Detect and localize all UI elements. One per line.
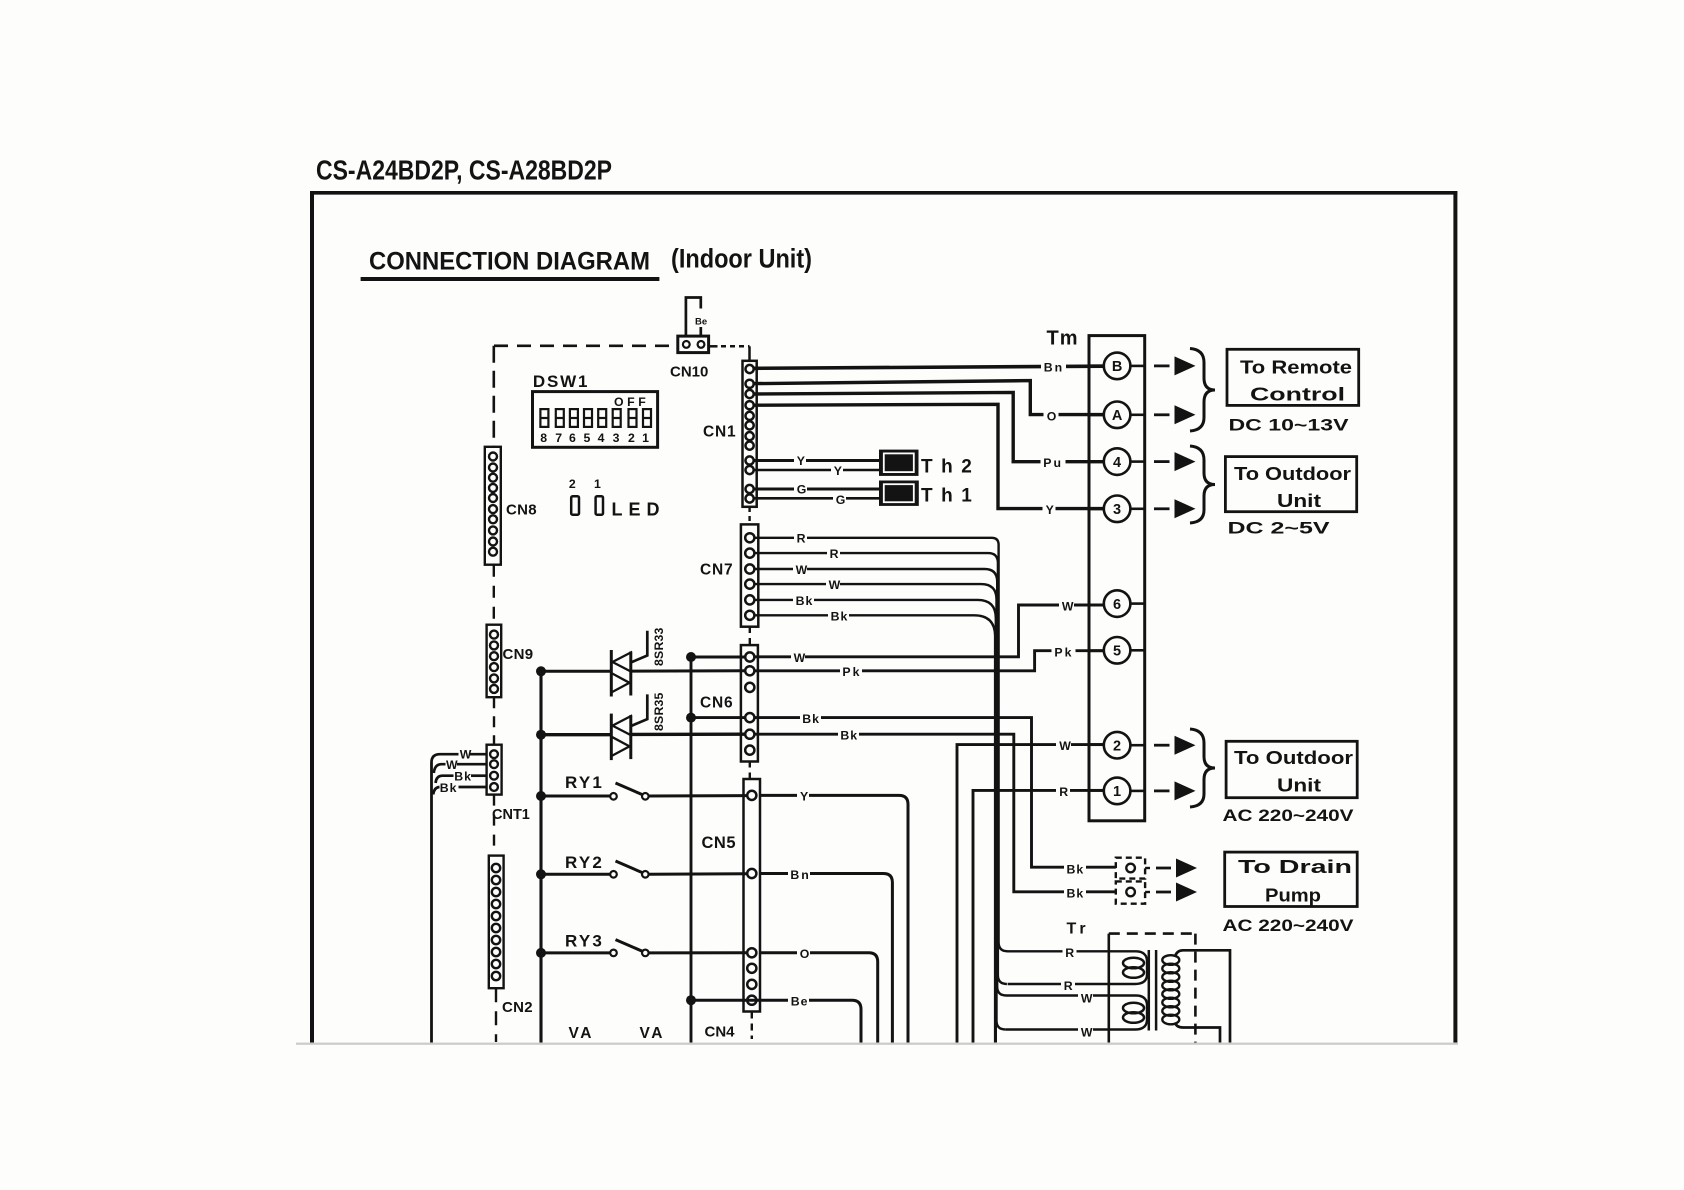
svg-text:Bk: Bk: [1067, 863, 1085, 877]
wire CN6 pin4 Bk to drain pump connector: [754, 718, 1116, 868]
wire label R: [794, 531, 807, 546]
svg-text:W: W: [1081, 1025, 1093, 1039]
thermistor Th2 body: [879, 450, 919, 476]
wire CN1 pin1 to terminal B: [754, 366, 1104, 368]
terminal 4: [1104, 448, 1131, 475]
svg-text:To Outdoor: To Outdoor: [1234, 464, 1351, 484]
wire label Bk: [838, 728, 859, 743]
svg-text:Y: Y: [1046, 503, 1054, 517]
LED 1 body: [596, 496, 603, 515]
svg-text:Pk: Pk: [1054, 646, 1073, 660]
svg-text:Tr: Tr: [1067, 921, 1090, 938]
svg-text:Control: Control: [1250, 384, 1345, 404]
wire label Pk terminal 5: [1052, 645, 1076, 660]
svg-text:B: B: [1112, 359, 1122, 375]
right vertical bus W net: [690, 657, 693, 1043]
connector CN7: [741, 524, 758, 626]
wire W to terminal 2 from bottom: [957, 745, 1104, 1043]
drain pump connector pin 1: [1116, 858, 1145, 879]
svg-text:(Indoor Unit): (Indoor Unit): [671, 244, 812, 274]
svg-text:Bk: Bk: [840, 728, 858, 742]
wire CN1 pin12 G to thermistor Th1: [754, 497, 880, 500]
relay RY3: [541, 940, 747, 957]
svg-text:CN8: CN8: [506, 502, 537, 519]
svg-text:Th1: Th1: [921, 486, 980, 507]
wire bus to CN6 pin4 Bk: [691, 716, 745, 719]
dashed wire CN9 to CNT1: [493, 697, 495, 745]
terminal 6: [1104, 590, 1131, 617]
svg-text:O: O: [1047, 410, 1057, 424]
svg-text:CNT1: CNT1: [492, 807, 530, 823]
junction bus 691 and Be wire: [686, 995, 696, 1005]
wire CN7 pin2 R to transformer primary: [754, 553, 1007, 984]
wire transformer secondary bottom: [1175, 1023, 1220, 1043]
transformer core: [1149, 950, 1156, 1031]
dip switch DSW1 pin numbers 87654321: [540, 431, 649, 445]
wire label Bk: [793, 593, 814, 608]
wire CN1 pin3 to terminal 4: [754, 392, 1104, 461]
wire triac1 row right to CN6 pin2: [631, 669, 745, 672]
wire transformer secondary top: [1175, 950, 1230, 1042]
svg-text:A: A: [1112, 408, 1123, 424]
connector CN8: [485, 447, 501, 565]
wire CN7 pin6 Bk going down: [754, 615, 995, 1042]
wire label Y: [794, 453, 806, 468]
heading underline: [361, 277, 660, 281]
wire label Be: [788, 994, 809, 1009]
junction bus and RY1: [536, 791, 546, 801]
wire label W: [1056, 738, 1071, 753]
svg-text:DC 2~5V: DC 2~5V: [1228, 519, 1331, 538]
info box To Outdoor Unit DC: [1225, 457, 1356, 512]
wire CN7 pin1 R to transformer primary: [754, 538, 1147, 984]
dashed wire CNT1 to CN2: [493, 795, 495, 856]
terminal 5: [1104, 637, 1131, 664]
wire label W: [791, 650, 806, 665]
wire label O: [797, 946, 810, 961]
wire R to terminal 1 from bottom: [973, 790, 1104, 1042]
svg-text:G: G: [836, 493, 846, 507]
wire label Bk drain 1: [1064, 862, 1086, 877]
drain pump connector pin 2: [1116, 881, 1145, 903]
triac SSR33: [611, 631, 647, 697]
brace terminals 4-3: [1190, 446, 1215, 523]
connector CNT1: [487, 745, 502, 795]
info box To Remote Control: [1227, 349, 1359, 405]
wire CN5 pin1 Y going down: [760, 795, 908, 1042]
svg-text:6: 6: [1113, 597, 1121, 613]
wire label Bk: [828, 609, 849, 624]
wire label Pu terminal 4: [1041, 455, 1066, 470]
svg-text:CN7: CN7: [700, 561, 733, 578]
svg-text:CS-A24BD2P, CS-A28BD2P: CS-A24BD2P, CS-A28BD2P: [316, 155, 612, 186]
brace terminals B-A: [1190, 349, 1215, 432]
transformer enclosure top edge dashed: [1109, 932, 1196, 935]
wire CN6 pin2 Pk to terminal 5: [754, 651, 1104, 671]
svg-text:4: 4: [1113, 455, 1121, 471]
dashed wire below CN4: [751, 1012, 753, 1040]
svg-text:VA: VA: [569, 1025, 594, 1042]
wire label O terminal A: [1044, 409, 1059, 424]
wire stub terminal 4 left: [1089, 460, 1104, 463]
wire label G: [833, 492, 846, 507]
svg-text:Pump: Pump: [1265, 886, 1321, 906]
svg-text:R: R: [797, 532, 806, 546]
arrow terminal A: [1154, 405, 1196, 424]
left vertical bus from triac rows to bottom: [539, 671, 542, 1043]
svg-text:1: 1: [594, 477, 601, 491]
svg-text:RY3: RY3: [565, 931, 604, 950]
transformer primary winding B loops: [1123, 1003, 1144, 1023]
transformer enclosure left edge: [1108, 934, 1111, 1043]
wire CN5 pin3 O going down: [760, 953, 878, 1043]
wire label R: [1056, 784, 1070, 799]
wire CN7 pin4 W to transformer primary: [754, 584, 1006, 1029]
arrow terminal B: [1154, 356, 1196, 375]
svg-text:2: 2: [569, 477, 576, 491]
svg-text:Be: Be: [695, 316, 707, 327]
info box To Drain Pump: [1225, 852, 1358, 906]
svg-text:4: 4: [598, 431, 605, 445]
svg-text:Pu: Pu: [1043, 456, 1063, 470]
border frame top edge: [310, 191, 1457, 195]
wire drain pin1 stub: [1145, 867, 1150, 869]
svg-text:DC 10~13V: DC 10~13V: [1229, 415, 1350, 434]
arrow terminal 2: [1154, 736, 1196, 755]
dashed wire below CN2: [495, 988, 497, 1042]
svg-text:CN1: CN1: [703, 424, 736, 441]
svg-text:AC 220~240V: AC 220~240V: [1223, 916, 1355, 935]
svg-text:CN10: CN10: [670, 363, 708, 380]
svg-text:8SR35: 8SR35: [652, 692, 666, 731]
svg-text:Unit: Unit: [1277, 491, 1321, 511]
dashed wire CN1 to CN7: [748, 507, 750, 524]
svg-text:R: R: [1059, 785, 1068, 799]
wire CN7 pin3 W to transformer primary: [754, 569, 1147, 1030]
svg-text:RY2: RY2: [565, 853, 604, 872]
svg-text:W: W: [829, 578, 841, 592]
wire stub terminal 5 left: [1089, 649, 1104, 652]
wire stub terminal 1 left: [1089, 789, 1104, 792]
connector CN6: [741, 645, 758, 761]
svg-text:Y: Y: [800, 789, 808, 803]
wire CN6 pin1 W to terminal 6: [754, 605, 1104, 657]
transformer secondary winding loops: [1162, 955, 1179, 1024]
wire CN6 pin5 Bk to drain pump connector: [754, 734, 1116, 892]
svg-text:Bk: Bk: [796, 594, 814, 608]
wire stub terminal 3 left: [1089, 507, 1104, 510]
svg-text:CN2: CN2: [502, 999, 533, 1016]
wire stub terminal B left: [1089, 364, 1104, 367]
svg-text:Bk: Bk: [802, 712, 820, 726]
border frame left edge: [310, 191, 314, 1043]
dashed pcb outline vertical wire to CN8: [492, 346, 495, 447]
svg-text:W: W: [796, 563, 808, 577]
svg-text:1: 1: [1113, 784, 1121, 800]
border frame right edge: [1453, 191, 1457, 1043]
terminal 1: [1104, 778, 1131, 805]
svg-text:AC 220~240V: AC 220~240V: [1223, 806, 1355, 825]
svg-text:W: W: [1059, 739, 1071, 753]
wire label Bk drain 2: [1064, 886, 1086, 901]
wire CNT1 pin1 W: [432, 754, 487, 762]
junction bus and RY2: [536, 869, 546, 879]
wire label W transformer primary 3: [1078, 991, 1093, 1006]
svg-text:CN5: CN5: [702, 834, 737, 852]
svg-text:To Outdoor: To Outdoor: [1234, 748, 1353, 768]
wire label W transformer primary 4: [1078, 1025, 1093, 1040]
svg-text:To Remote: To Remote: [1240, 357, 1352, 377]
dashed wire CN7 to CN6: [749, 627, 751, 645]
svg-text:W: W: [1081, 991, 1093, 1005]
wire label R transformer primary 1: [1063, 945, 1077, 960]
wire label Y terminal 3: [1043, 502, 1056, 517]
svg-text:7: 7: [555, 431, 562, 445]
connector CN9: [487, 625, 502, 698]
junction bus and RY3: [536, 948, 546, 958]
wire drain pin2 stub: [1145, 891, 1150, 893]
svg-text:Bk: Bk: [440, 781, 458, 795]
arrow terminal 1: [1154, 781, 1196, 800]
svg-text:2: 2: [628, 431, 635, 445]
brace terminals 2-1: [1190, 729, 1215, 807]
wire CNT1 bundle vertical going down: [430, 763, 433, 1043]
dip switch DSW1 switch 5: [584, 409, 592, 427]
dip switch DSW1 switch 8: [540, 409, 548, 427]
terminal A: [1104, 402, 1131, 429]
svg-text:LED: LED: [612, 500, 666, 520]
terminal strip Tm body: [1089, 336, 1145, 821]
svg-text:Bk: Bk: [831, 609, 849, 623]
wire label W terminal 6: [1059, 599, 1074, 614]
terminal 3: [1104, 496, 1131, 523]
svg-text:W: W: [460, 748, 472, 762]
wire stub terminal 6 left: [1089, 604, 1104, 607]
svg-text:CN6: CN6: [700, 695, 733, 712]
wire CN1 pin4 to terminal 3: [754, 404, 1104, 508]
connector CN10: [678, 336, 709, 353]
wire CNT1 pin3 Bk: [436, 776, 487, 783]
jumper wire above CN10: [686, 298, 701, 337]
wire label Y: [797, 789, 809, 804]
transformer enclosure right edge dashed: [1194, 934, 1197, 1043]
relay RY1: [541, 783, 747, 800]
wire label Bk: [800, 711, 821, 726]
svg-text:5: 5: [583, 431, 590, 445]
junction bus and W wire: [686, 652, 696, 662]
dashed wire CN6 to CN5: [749, 762, 751, 780]
svg-text:CONNECTION DIAGRAM: CONNECTION DIAGRAM: [369, 248, 650, 276]
info box To Outdoor Unit AC: [1226, 741, 1357, 797]
dip switch DSW1 switch 7: [556, 409, 564, 427]
connector CN5 / CN4: [744, 779, 761, 1012]
wire stub terminal A left: [1089, 413, 1104, 416]
dip switch DSW1 switch 2: [629, 409, 637, 427]
svg-text:VA: VA: [640, 1025, 665, 1042]
LED 2 body: [571, 496, 579, 515]
svg-text:W: W: [794, 651, 806, 665]
junction bus and triac1: [536, 666, 546, 676]
svg-text:3: 3: [1113, 502, 1121, 518]
svg-text:3: 3: [613, 431, 620, 445]
wire CNT1 pin4 Bk: [433, 787, 486, 795]
arrow terminal 4: [1154, 452, 1196, 471]
wire label Bn: [788, 867, 811, 882]
terminal 2: [1104, 732, 1131, 759]
dip switch DSW1 switch 1: [643, 409, 651, 427]
svg-text:OFF: OFF: [614, 395, 649, 409]
svg-text:Unit: Unit: [1277, 776, 1321, 796]
wire label Bn terminal B: [1041, 360, 1066, 375]
svg-text:W: W: [1062, 600, 1074, 614]
scan cut gray band at bottom: [296, 1043, 1458, 1045]
wire CN4 pin Be from bus to down: [691, 1000, 861, 1042]
wire triac1 row left: [541, 670, 611, 673]
terminal right stubs: [1130, 366, 1144, 791]
wire stub terminal 2 left: [1089, 743, 1104, 746]
wire label W: [826, 577, 841, 592]
svg-text:Be: Be: [791, 995, 809, 1009]
wire label Y: [831, 463, 843, 478]
wire label Pk: [840, 664, 862, 679]
junction bus and Bk wire: [686, 713, 696, 723]
connector CN1: [743, 361, 757, 507]
wire bus to CN6 pin1 W: [691, 656, 745, 659]
svg-text:Pk: Pk: [842, 665, 861, 679]
transformer primary winding A loops: [1123, 958, 1144, 978]
terminal B: [1104, 353, 1131, 380]
wire label W: [793, 562, 808, 577]
wire label R transformer primary 2: [1061, 978, 1075, 993]
svg-text:Bn: Bn: [790, 868, 810, 882]
svg-text:Y: Y: [797, 454, 805, 468]
arrow drain 2: [1156, 883, 1197, 902]
arrow drain 1: [1156, 859, 1197, 878]
svg-text:G: G: [797, 482, 807, 496]
wire triac2 row left: [541, 733, 611, 736]
dip switch DSW1 switch 6: [570, 409, 578, 427]
svg-text:Bn: Bn: [1044, 361, 1064, 375]
dashed pcb outline horizontal wire to CN10: [494, 344, 678, 347]
triac SSR35: [611, 694, 647, 760]
svg-text:Bk: Bk: [1067, 887, 1085, 901]
svg-text:R: R: [1065, 946, 1074, 960]
svg-text:2: 2: [1113, 739, 1121, 755]
svg-text:5: 5: [1113, 644, 1121, 660]
arrow terminal 3: [1154, 499, 1196, 518]
junction bus and triac2: [536, 730, 546, 740]
svg-text:RY1: RY1: [565, 773, 604, 792]
wire CNT1 pin2 W: [434, 764, 487, 773]
dash-dot wire CN10 to CN1: [709, 346, 750, 361]
svg-text:6: 6: [569, 431, 576, 445]
svg-text:To Drain: To Drain: [1238, 857, 1352, 877]
wire CN1 pin9 Y to thermistor Th2: [754, 459, 880, 462]
svg-text:R: R: [1064, 979, 1073, 993]
wire CN1 pin11 G to thermistor Th1: [754, 488, 880, 491]
svg-text:Th2: Th2: [921, 456, 980, 477]
wire CN7 pin5 Bk going down: [754, 600, 996, 1043]
svg-text:O: O: [800, 947, 810, 961]
relay RY2: [541, 861, 747, 878]
svg-text:8SR33: 8SR33: [652, 627, 666, 666]
dashed wire CN8 to CN9: [493, 565, 495, 625]
svg-text:CN4: CN4: [705, 1024, 736, 1041]
dip switch DSW1 body: [533, 392, 658, 448]
svg-text:DSW1: DSW1: [533, 372, 589, 391]
wire CN1 pin10 Y to thermistor Th2: [754, 469, 880, 472]
svg-text:1: 1: [642, 431, 649, 445]
wire label R: [827, 546, 840, 561]
wire CN5 pin2 Bn going down: [760, 874, 892, 1043]
svg-text:R: R: [830, 547, 839, 561]
wire triac2 row right to CN6 pin5: [631, 733, 745, 737]
wire label G: [794, 482, 807, 497]
wire CN1 pin2 to terminal A: [754, 381, 1104, 415]
svg-text:CN9: CN9: [503, 646, 534, 663]
dip switch DSW1 switch 4: [598, 409, 606, 427]
svg-text:Y: Y: [834, 464, 842, 478]
svg-text:8: 8: [540, 431, 547, 445]
thermistor Th1 body: [879, 481, 919, 506]
connector CN2: [489, 856, 504, 989]
svg-text:Tm: Tm: [1047, 328, 1079, 350]
dip switch DSW1 switch 3: [613, 409, 621, 427]
